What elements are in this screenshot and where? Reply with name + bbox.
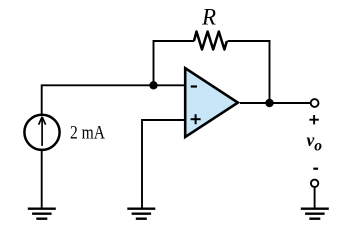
wire: current source top stub	[41, 84, 43, 114]
terminal: output top (open circle)	[311, 99, 319, 107]
wire: non-inverting down to ground	[141, 119, 143, 209]
terminal: output bottom (open circle)	[311, 180, 318, 187]
resistor R	[194, 32, 227, 50]
wire: current source bottom stub	[41, 150, 43, 209]
wire: top feedback left horizontal	[154, 40, 195, 42]
wire: output	[240, 102, 310, 104]
node: output junction	[265, 99, 273, 107]
wire: feedback left vertical	[153, 40, 155, 85]
svg-text:2 mA: 2 mA	[70, 123, 106, 143]
svg-text:R: R	[201, 5, 216, 30]
op-amp U1 triangle	[185, 68, 238, 137]
label + (output polarity)	[309, 115, 318, 124]
ground (middle, under op-amp + input)	[127, 209, 155, 219]
svg-text:vo: vo	[307, 130, 323, 155]
op-amp plus input sign	[191, 114, 201, 124]
current source 2 mA circle	[24, 115, 59, 150]
wire: top feedback right horizontal	[228, 40, 271, 42]
ground (right, under output terminal)	[301, 209, 329, 219]
wire: feedback right vertical	[269, 40, 271, 103]
wire: bottom terminal to ground	[314, 187, 316, 209]
wire: inverting input horizontal	[42, 84, 184, 86]
op-amp minus input sign	[191, 85, 197, 87]
wire: non-inverting input horizontal	[142, 119, 184, 121]
current source arrow	[39, 117, 46, 146]
ground (left, under current source)	[28, 209, 56, 219]
node: inverting input junction	[149, 81, 157, 89]
label - (output polarity)	[313, 168, 318, 170]
